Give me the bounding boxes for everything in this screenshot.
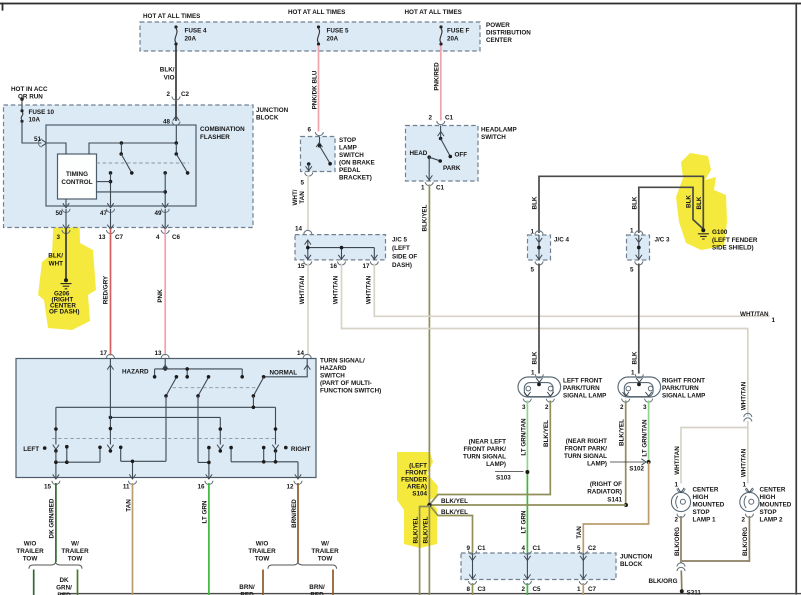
wire PNK/RED fuseF to headlamp switch [440,46,442,121]
svg-text:16: 16 [330,263,338,270]
bottom junction block entry arrows [469,556,475,561]
stop lamp switch contact dot [318,144,322,148]
svg-text:WHT/TAN: WHT/TAN [674,446,681,475]
stop lamp switch pin 6 arc and arrow [315,132,323,136]
svg-text:16: 16 [197,484,205,491]
svg-text:HIGH: HIGH [760,494,776,501]
svg-text:2: 2 [620,404,624,411]
svg-text:2: 2 [741,517,745,524]
svg-text:BLK/YEL: BLK/YEL [412,516,419,543]
inline connector arcs on BLK/ORG wire [677,563,685,567]
svg-text:PNK/RED: PNK/RED [433,62,440,91]
svg-text:RIGHT: RIGHT [291,446,311,453]
svg-text:C1: C1 [445,115,454,122]
flasher internal wire to pin 47 [110,173,112,206]
svg-text:BLK/YEL: BLK/YEL [543,420,550,447]
highlight over S104 splice [397,452,438,548]
svg-text:TOW: TOW [68,556,83,563]
svg-text:8: 8 [466,586,470,593]
svg-text:S141: S141 [607,497,622,504]
svg-text:W/: W/ [71,541,79,548]
right front lamp bottom arcs pins 2 and 3 [622,399,630,403]
svg-text:WHT/TAN: WHT/TAN [299,275,306,304]
wire LT GRN/TAN left lamp pin 3 to splice S103 [526,401,528,473]
svg-text:OFF: OFF [455,152,468,159]
svg-text:WHT/TAN: WHT/TAN [741,381,748,410]
svg-text:(ON BRAKE: (ON BRAKE [339,160,375,167]
svg-text:5: 5 [577,545,581,552]
J/C 3 internal wire and node [638,235,640,260]
svg-text:6: 6 [307,127,311,134]
hazard wiring to pin 12 [231,448,298,478]
J/C 5 pin 14 arc [304,230,312,234]
svg-text:(NEAR RIGHT: (NEAR RIGHT [566,438,607,445]
svg-text:SIGNAL LAMP: SIGNAL LAMP [662,393,705,400]
svg-text:50: 50 [55,210,63,217]
svg-text:STOP: STOP [693,509,710,516]
hazard switch pin 13 entry arc and arrow [161,354,169,358]
svg-text:BLK/ORG: BLK/ORG [648,578,677,585]
J/C 3 pin 1 arc [635,231,643,235]
timing control box [58,154,97,199]
right front lamp pin 1 arc [635,374,643,378]
svg-text:TURN SIGNAL/: TURN SIGNAL/ [320,358,365,365]
svg-text:FRONT PARK/: FRONT PARK/ [463,446,506,453]
wire BLK/ORG stop lamp 2 down and left [682,516,750,561]
wire BLK/YEL S104 down right leg [428,505,430,595]
J/C 4 pin 1 arc [535,231,543,235]
svg-text:3: 3 [522,404,526,411]
wire PNK connector C6 to hazard switch pin 13 [164,229,166,356]
svg-text:(LEFT: (LEFT [409,463,427,470]
svg-text:C7: C7 [115,234,124,241]
svg-text:S104: S104 [412,491,427,498]
junction connector J/C 5 box [295,235,386,260]
svg-text:C1: C1 [436,185,445,192]
flasher internal wire to pin 49 [164,173,166,206]
bottom junction block exit arrows [469,574,475,579]
hazard internal bus A [155,369,243,377]
svg-text:3: 3 [56,234,60,241]
svg-text:BRACKET): BRACKET) [339,175,372,182]
svg-text:BLK/ORG: BLK/ORG [742,527,749,556]
svg-text:2: 2 [674,517,678,524]
svg-text:17: 17 [100,350,108,357]
svg-text:1: 1 [577,586,581,593]
svg-text:1: 1 [742,482,746,489]
svg-text:TAN: TAN [576,526,583,539]
svg-text:HEADLAMP: HEADLAMP [481,127,517,134]
hazard switch arm 3 [253,377,263,396]
svg-text:OF DASH): OF DASH) [49,309,79,316]
svg-text:(RIGHT OF: (RIGHT OF [590,481,622,488]
svg-text:W/: W/ [321,541,329,548]
svg-text:CENTER: CENTER [486,37,512,44]
svg-text:BLK/YEL: BLK/YEL [441,498,468,505]
svg-text:PARK: PARK [443,165,461,172]
svg-text:G100: G100 [712,229,728,236]
svg-text:W/O: W/O [256,541,269,548]
stop lamp switch wire to pin 5 [308,164,310,172]
wire fuse 10 to flasher pin 51 [22,121,42,143]
wire BLK J/C3 to G100 [639,187,703,233]
headlamp switch box [406,126,479,182]
S102 pointer line with arrow [610,461,644,463]
svg-text:(LEFT FENDER: (LEFT FENDER [712,237,758,244]
svg-text:LT GRN: LT GRN [202,500,209,523]
junction block box (upper left) [4,105,254,228]
headlamp switch wire to pin 1 C1 [428,157,430,181]
svg-text:4: 4 [521,545,525,552]
svg-text:HIGH: HIGH [693,494,709,501]
svg-text:BLK: BLK [696,196,703,209]
svg-text:TRAILER: TRAILER [248,548,276,555]
stop lamp switch output contact dot [307,162,311,166]
connector 3 arrow and arc at junction block bottom [63,225,69,230]
hazard contact dots under arrows [54,449,58,453]
svg-text:RIGHT FRONT: RIGHT FRONT [662,378,705,385]
left front lamp pin 1 arc [535,374,543,378]
right front park/turn signal lamp symbol [618,377,661,397]
power distribution center box [140,22,480,51]
svg-text:FUNCTION SWITCH): FUNCTION SWITCH) [320,388,381,395]
LEFT indicator dot [43,446,47,450]
svg-text:J/C 5: J/C 5 [392,237,408,244]
connector C6 arrow and arc [162,225,168,230]
connector C2 arc [172,97,180,101]
svg-text:9: 9 [466,545,470,552]
svg-text:WHT/TAN: WHT/TAN [741,448,748,477]
svg-text:HOT AT ALL TIMES: HOT AT ALL TIMES [288,9,345,16]
svg-text:BLK/YEL: BLK/YEL [422,516,429,543]
J/C 5 internal entry arrow [305,240,311,245]
svg-text:TIMING: TIMING [66,171,88,178]
highlight over G206 ground [38,193,96,330]
svg-text:PARK/TURN: PARK/TURN [662,385,699,392]
inline connector arcs on WHT/TAN wire [744,413,752,417]
svg-text:C6: C6 [172,234,181,241]
timing control output to pin 50 [65,199,67,206]
svg-text:RED: RED [240,592,254,595]
stop lamp switch box [301,137,336,172]
svg-text:BLK/YEL: BLK/YEL [421,204,428,231]
svg-text:2: 2 [428,115,432,122]
wire PNK/DK BLU fuse5 to stop lamp switch [318,46,320,132]
left front lamp bottom arcs pins 3 and 2 [523,399,531,403]
svg-text:15: 15 [44,484,52,491]
wire RED/GRY connector C7 to hazard switch pin 17 [110,229,112,356]
hazard switch arm 1 [166,377,176,396]
svg-text:TRAILER: TRAILER [61,548,89,555]
svg-text:10A: 10A [29,117,41,124]
svg-text:RED/GRY: RED/GRY [103,275,110,304]
fuse FUSE 5 20A [317,25,320,45]
hazard wiring to pin 11 [121,447,166,477]
splice S104 [427,503,431,507]
connector C7 arrow and arc [107,225,113,230]
J/C 3 pin 5 arc [635,261,643,265]
wire pin 50 to junction block edge [65,209,67,228]
highlight over G100 ground [676,153,727,250]
wire BLK/YEL below junction block pin 8 C3 [472,583,474,595]
svg-text:HEAD: HEAD [410,150,428,157]
svg-text:5: 5 [300,180,304,187]
wire TAN below junction block pin 1 C7 [582,583,584,595]
wire BLK/YEL S104 to S141 [429,504,626,506]
svg-text:14: 14 [297,350,305,357]
svg-text:BLK: BLK [631,351,638,364]
svg-text:C1: C1 [478,545,487,552]
svg-text:BLK: BLK [532,351,539,364]
svg-text:NORMAL: NORMAL [270,370,298,377]
junction connector J/C 4 box [528,235,551,260]
svg-text:HOT IN ACC: HOT IN ACC [11,86,48,93]
svg-text:PNK: PNK [157,289,164,303]
svg-text:2: 2 [545,404,549,411]
wire BLK J/C4 to left front lamp [538,264,540,374]
splice S102 [647,460,651,464]
hazard contact arrows row [53,445,59,450]
svg-text:2: 2 [521,586,525,593]
headlamp switch contact dot [439,137,443,141]
svg-text:LT GRN/TAN: LT GRN/TAN [642,419,649,457]
flasher switch 2 pivot stub [175,143,177,154]
svg-text:PNK/DK BLU: PNK/DK BLU [311,70,318,109]
svg-text:5: 5 [630,267,634,274]
page border bottom [60,593,801,594]
svg-text:COMBINATION: COMBINATION [200,126,245,133]
svg-text:POWER: POWER [486,22,510,29]
S103 pointer line [495,471,524,473]
svg-text:S103: S103 [496,475,511,482]
svg-text:J/C 3: J/C 3 [655,237,671,244]
hazard switch pin 17 entry arc and arrow [106,354,114,358]
wire WHT/TAN J/C5 pin 17 off page [374,264,770,317]
svg-text:CENTER: CENTER [760,487,786,494]
svg-text:TAN: TAN [299,191,306,204]
J/C 4 pin 5 arc [535,261,543,265]
svg-text:WHT/TAN: WHT/TAN [333,275,340,304]
wire hot in acc to fuse 10 [21,99,23,110]
svg-text:RADIATOR): RADIATOR) [587,489,622,496]
svg-text:LEFT: LEFT [23,446,39,453]
RIGHT indicator dot [284,446,288,450]
turn signal / hazard switch box [16,359,316,478]
svg-text:1: 1 [530,229,534,236]
svg-text:(LEFT: (LEFT [392,245,410,252]
svg-text:S311: S311 [687,590,702,595]
svg-text:BLK: BLK [686,195,693,208]
svg-text:(NEAR LEFT: (NEAR LEFT [469,439,507,446]
hazard exit arrows pins 15 11 16 12 [53,474,59,479]
svg-text:BLOCK: BLOCK [256,115,279,122]
ground G206 symbol [64,278,68,282]
svg-text:1: 1 [772,317,776,324]
svg-text:20A: 20A [447,36,459,43]
svg-text:14: 14 [295,226,303,233]
svg-text:LEFT FRONT: LEFT FRONT [563,378,602,385]
svg-text:TURN SIGNAL: TURN SIGNAL [564,453,607,460]
svg-text:5: 5 [530,267,534,274]
headlamp switch HEAD contact dot [427,155,431,159]
timing control link to pin 49 column [97,191,166,193]
hazard internal pin 14 feed to NORMAL contact [264,359,308,377]
wire BRN w/o trailer tow [262,570,264,595]
svg-text:PEDAL: PEDAL [339,167,360,174]
svg-text:JUNCTION: JUNCTION [256,107,289,114]
svg-text:4: 4 [156,234,160,241]
stop lamp 1 pin arcs [677,489,685,493]
power stub dot above fuse 10 [20,98,23,101]
svg-text:WHT/TAN: WHT/TAN [740,311,769,318]
wire TAN hazard pin 11 down [132,483,134,595]
svg-text:49: 49 [154,210,162,217]
J/C 4 internal wire and node [538,235,540,260]
svg-text:LT GRN/TAN: LT GRN/TAN [520,418,527,456]
svg-text:FUSE F: FUSE F [447,28,470,35]
hazard mechanical link dashed upper [173,387,257,389]
svg-text:HAZARD: HAZARD [320,365,347,372]
node on bus at switch 1 [120,141,124,145]
wire BRN/RED hazard pin 12 down [297,483,299,562]
svg-text:1: 1 [631,370,635,377]
svg-text:TAN: TAN [125,499,132,512]
svg-text:FUSE 10: FUSE 10 [29,109,55,116]
splice S141 [624,503,628,507]
center high mounted stop lamp 2 symbol [740,492,759,511]
svg-text:GRN/: GRN/ [56,585,72,592]
svg-text:(PART OF MULTI-: (PART OF MULTI- [320,380,372,387]
svg-text:C1: C1 [533,545,542,552]
svg-text:WHT: WHT [49,261,63,268]
wire BLK/WHT connector 3 to ground G206 [65,229,67,279]
svg-text:51: 51 [34,136,42,143]
svg-text:HAZARD: HAZARD [122,369,149,376]
stop lamp switch pin 5 arc [305,173,313,177]
svg-text:BLK: BLK [532,196,539,209]
svg-text:STOP: STOP [339,137,356,144]
hazard arm pivot descenders [166,396,253,463]
pin 51 arc and arrow [38,139,42,147]
svg-text:DK: DK [59,577,69,584]
svg-text:RED: RED [310,592,324,595]
svg-text:BLOCK: BLOCK [620,561,643,568]
svg-text:LT GRN: LT GRN [520,510,527,533]
svg-text:47: 47 [100,210,108,217]
wire BLK ground distribution to G100 [539,176,703,233]
flasher contact node pin 49 [163,171,167,175]
fuse FUSE 10 10A [20,109,23,112]
svg-text:SIDE SHIELD): SIDE SHIELD) [712,245,754,252]
svg-text:WHT/: WHT/ [292,189,299,205]
svg-text:1: 1 [421,185,425,192]
wire BLK J/C3 to right front lamp [638,264,640,374]
fuse FUSE F 20A [439,25,442,45]
svg-text:AREA): AREA) [407,484,427,491]
hazard internal pin 17 column [109,359,111,445]
flasher internal wire pin51 to timing control [46,143,66,154]
svg-text:2: 2 [166,91,170,98]
bottom junction block internal wires [473,553,584,580]
svg-text:11: 11 [123,484,130,491]
wire WHT/TAN J/C5 pin 16 to center stop lamps [342,264,748,417]
svg-text:17: 17 [362,263,370,270]
svg-text:HOT AT ALL TIMES: HOT AT ALL TIMES [143,13,200,20]
svg-text:BLK: BLK [631,196,638,209]
svg-text:BLK/YEL: BLK/YEL [619,419,626,446]
hazard bottom arcs [52,481,60,485]
svg-text:C3: C3 [478,586,487,593]
svg-text:OR RUN: OR RUN [18,94,43,101]
svg-text:3: 3 [643,404,647,411]
wire WHT/TAN branch to center stop lamp 1 [681,428,748,484]
hazard switch pin 14 entry arc and arrow [303,354,311,358]
J/C 5 bottom arcs [304,261,312,265]
timing control link to pin 47 column [97,181,111,183]
svg-text:STOP: STOP [760,509,777,516]
pin 48 arrow and arc at combination flasher [173,116,179,121]
svg-text:20A: 20A [185,36,197,43]
svg-text:TOW: TOW [23,556,38,563]
svg-text:20A: 20A [327,36,339,43]
center high mounted stop lamp 1 symbol [671,492,690,511]
wire LT GRN below junction block pin 2 C5 [526,583,528,595]
flasher contact node pin 47 [109,171,113,175]
hazard mechanical link dashed lower [52,438,278,440]
headlamp switch pin 2 C1 arc and arrow [437,121,445,125]
svg-text:SWITCH: SWITCH [320,373,345,380]
svg-text:C5: C5 [533,586,542,593]
svg-text:WHT/TAN: WHT/TAN [365,275,372,304]
junction block box (bottom) [461,553,616,580]
wire WHT/TAN J/C5 pin 15 to hazard pin 14 [307,264,309,356]
brace under DK GRN/RED wire [29,562,82,569]
svg-text:LAMP 1: LAMP 1 [693,517,716,524]
svg-text:FUSE 5: FUSE 5 [327,28,350,35]
wire BLK/ORG stop lamp 1 down [680,516,682,563]
svg-text:SWITCH: SWITCH [339,152,364,159]
hazard switch arm 2 [198,377,209,396]
page border left stub [2,3,4,11]
flasher mechanical link dashed [97,162,190,164]
svg-text:BRN/: BRN/ [309,584,325,591]
svg-text:TOW: TOW [255,556,270,563]
svg-text:MOUNTED: MOUNTED [760,502,792,509]
wire BLK/ORG to splice S311 [680,571,683,591]
stop lamp switch arm [320,146,331,164]
wire BLK/YEL S104 down left leg [420,507,430,595]
bottom junction block top arcs [469,551,477,555]
svg-text:48: 48 [163,119,171,126]
svg-text:TRAILER: TRAILER [311,548,339,555]
wire TAN splice S102 to junction block pin 5 C2 [583,462,648,553]
svg-text:CENTER: CENTER [693,487,719,494]
svg-text:JUNCTION: JUNCTION [620,554,653,561]
hazard internal bus C [110,417,220,444]
svg-text:HOT AT ALL TIMES: HOT AT ALL TIMES [405,9,462,16]
wire BLK/VIO fuse4 to junction block pin 48 [175,46,177,122]
junction connector J/C 3 box [627,235,650,260]
svg-text:FRONT: FRONT [405,470,427,477]
flasher switch 1 pivot stub [120,143,122,154]
flasher switch 2 arm [176,154,187,173]
pin 47 arrow and arc at flasher bottom [107,203,113,208]
fuse FUSE 4 20A [174,25,177,45]
splice S103 [525,470,529,474]
hazard internal bus B [56,407,276,444]
wire LT GRN hazard pin 16 down [208,483,210,595]
svg-text:1: 1 [531,370,535,377]
